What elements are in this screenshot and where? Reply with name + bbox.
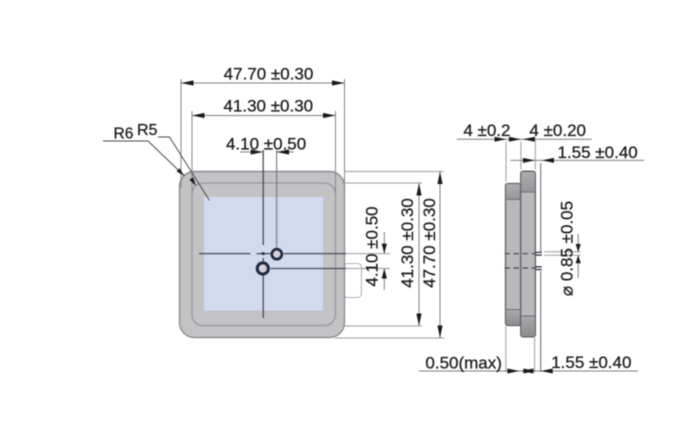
vertical centerline	[262, 150, 264, 318]
dimension 1.55 +/-0.40 pin length top	[511, 143, 645, 163]
dimension 0.50 max electrode setback	[425, 354, 533, 374]
pad outline at right edge of body	[344, 264, 362, 298]
extension lines for width dimensions	[181, 79, 345, 194]
dimension 4.10 +/-0.50 pin offset vertical	[363, 206, 387, 290]
svg-text:R6: R6	[114, 126, 134, 143]
label R5 corner radius	[137, 122, 158, 139]
dimension pin diameter 0.85 +/-0.05	[558, 201, 581, 296]
svg-text:4.10 ±0.50: 4.10 ±0.50	[363, 206, 382, 286]
horizontal centerline	[199, 253, 346, 255]
front view top-surface outline 41.30 square	[192, 183, 336, 326]
svg-text:1.55 ±0.40: 1.55 ±0.40	[551, 353, 631, 372]
bottom dimension line	[419, 370, 638, 372]
centerline extensions to side dimension	[346, 254, 390, 269]
side view top-surface profile strip	[506, 184, 521, 326]
dimension 47.70 +/-0.30 height	[420, 172, 443, 339]
side view base profile strip	[521, 171, 536, 336]
front view ceramic body outline 47.70 square	[180, 172, 345, 338]
feed pin upper circle	[272, 249, 282, 259]
dimension 4.10 +/-0.50 pin offset horizontal	[226, 134, 306, 154]
svg-text:47.70 ±0.30: 47.70 ±0.30	[420, 198, 439, 288]
svg-text:41.30 ±0.30: 41.30 ±0.30	[223, 96, 313, 115]
label R6 corner radius	[114, 126, 134, 143]
protruding pin B	[535, 267, 541, 270]
dimension 47.70 +/-0.30 width	[181, 65, 345, 86]
svg-text:R5: R5	[137, 122, 158, 139]
upper pin extension line	[276, 150, 278, 248]
pin tip extension line	[540, 163, 542, 372]
svg-text:4.10 ±0.50: 4.10 ±0.50	[226, 134, 306, 153]
leader line R6	[103, 141, 185, 176]
extension lines for height dimensions	[335, 172, 445, 339]
dimension 4 +/-0.20 thickness	[523, 121, 586, 142]
front view silver electrode area	[204, 197, 323, 311]
side view extension lines	[506, 142, 581, 373]
dimension 41.30 +/-0.30 width	[192, 96, 336, 118]
center point	[262, 252, 265, 255]
leader line R5	[158, 137, 210, 201]
feed pin lower circle	[257, 263, 268, 274]
hidden lines of feed pins	[505, 254, 536, 268]
dimension 41.30 +/-0.30 height	[398, 183, 422, 326]
dimension 1.55 +/-0.40 pin length bottom	[523, 353, 631, 374]
svg-text:41.30 ±0.30: 41.30 ±0.30	[398, 198, 417, 288]
svg-text:47.70 ±0.30: 47.70 ±0.30	[224, 65, 314, 84]
svg-text:1.55 ±0.40: 1.55 ±0.40	[558, 143, 638, 162]
svg-text:0.50(max): 0.50(max)	[425, 354, 502, 373]
svg-text:4 ±0.20: 4 ±0.20	[529, 121, 586, 140]
svg-text:⌀ 0.85 ±0.05: ⌀ 0.85 ±0.05	[558, 201, 577, 296]
protruding pin A	[535, 252, 541, 255]
lower pin leader line	[271, 268, 347, 270]
dimension 4 +/-0.2 thickness	[457, 121, 592, 142]
svg-text:4 ±0.2: 4 ±0.2	[463, 121, 510, 140]
